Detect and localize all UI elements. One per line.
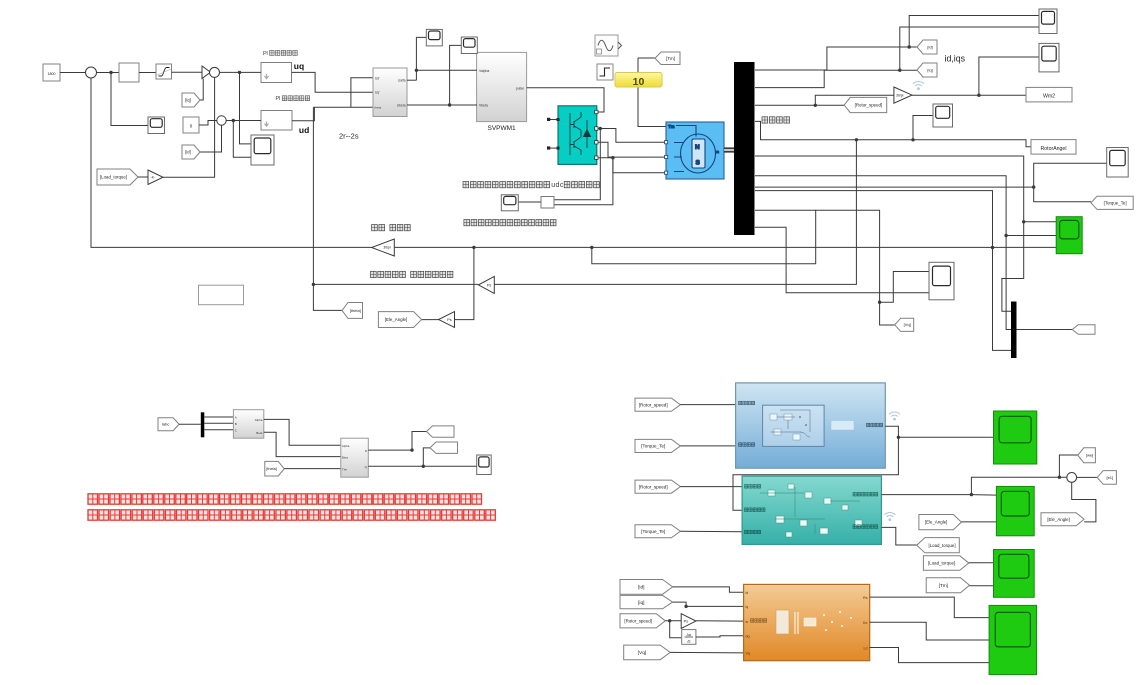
annotation red line2 <box>88 510 98 520</box>
wire Ubeta to SVPWM <box>407 104 477 106</box>
from tag Load_torque <box>97 169 138 185</box>
scope Wm <box>1039 43 1059 72</box>
constant 0 <box>183 117 199 133</box>
wire to we tag <box>1059 455 1077 477</box>
junction <box>472 246 475 249</box>
wire voltage measure C <box>554 158 613 205</box>
svg-text:2r--2s: 2r--2s <box>339 132 359 141</box>
annotation frequency <box>464 220 470 226</box>
wire load to gain <box>138 176 148 178</box>
goto tag Vq <box>895 318 914 331</box>
subsystem abc to alphabeta <box>233 410 263 439</box>
wire speed to Ps gain 2 <box>455 247 474 319</box>
wire id to orange <box>673 587 744 592</box>
from tag theta 2 <box>265 461 284 476</box>
wire Q out to scope <box>368 465 476 467</box>
wire Tm to motor <box>638 58 667 127</box>
svg-text:Ps: Ps <box>447 318 452 322</box>
svg-text:[Vq]: [Vq] <box>638 650 647 656</box>
svg-text:[Rotor_speed]: [Rotor_speed] <box>639 402 668 407</box>
svg-text:id,iqs: id,iqs <box>945 54 966 64</box>
wire blue out to teal in2 <box>733 426 898 510</box>
wire speed observe out <box>881 494 971 496</box>
wire Ubeta to scope <box>450 45 462 105</box>
svg-text:-K-: -K- <box>150 176 156 180</box>
wire Te to goto tag <box>1034 187 1091 202</box>
derivative block <box>682 630 696 645</box>
svg-text:Ud': Ud' <box>375 77 380 81</box>
junction <box>611 156 614 159</box>
svg-text:[Tm]: [Tm] <box>666 56 675 61</box>
from tag Rotor_speed 1 <box>635 398 680 411</box>
from tag Rotor_speed 2 <box>635 480 680 493</box>
PI current regulator d <box>261 111 292 131</box>
wire sum2 to PIq <box>220 71 262 73</box>
wire to Vq tag <box>880 302 895 325</box>
wire D to goto 1 <box>412 432 427 451</box>
label multiply pole pairs <box>371 271 377 277</box>
scope angle <box>933 104 953 127</box>
svg-text:[Torque_Te]: [Torque_Te] <box>1104 200 1127 205</box>
svg-text:c: c <box>560 182 564 189</box>
voltage measurement block <box>541 197 554 209</box>
wire torque to blue <box>680 445 735 447</box>
junction <box>668 619 671 622</box>
wire Te to scope D <box>1034 163 1107 187</box>
svg-text:Ubeta: Ubeta <box>397 103 406 107</box>
teal ports <box>745 485 748 489</box>
signal generator block <box>595 35 618 56</box>
empty annotation box <box>199 285 244 305</box>
junction <box>448 103 451 106</box>
junction <box>897 436 900 439</box>
svg-text:[e1]: [e1] <box>1106 475 1113 480</box>
svg-text:Alpha: Alpha <box>255 418 263 422</box>
scope Ualfa <box>426 29 442 46</box>
junction <box>814 104 817 107</box>
wire mech angle to RotorAngel <box>755 121 1031 146</box>
wire Tm to green scope3 <box>970 585 994 587</box>
goto tag id <box>917 40 937 54</box>
junction <box>991 246 994 249</box>
wire bus Te <box>755 186 1034 188</box>
svg-text:m: m <box>716 150 719 154</box>
wire 0 to sum <box>199 121 217 126</box>
label mechanical angle <box>762 117 768 123</box>
wire PI to saturation <box>139 72 156 74</box>
svg-text:B: B <box>235 422 237 426</box>
svg-text:[Torque_Te]: [Torque_Te] <box>641 444 665 449</box>
wire speed to green scope in3 <box>993 246 1057 248</box>
goto tag Torque_Te <box>1091 196 1133 209</box>
svg-text:[iq]: [iq] <box>638 600 644 606</box>
svg-text:The: The <box>342 468 347 472</box>
scope dq <box>477 455 492 475</box>
svg-text:[Rotor_speed]: [Rotor_speed] <box>855 103 883 108</box>
wire load observe out <box>881 527 916 545</box>
wire Rs to scope <box>870 597 989 618</box>
junction <box>410 448 413 451</box>
from tag Iabc <box>158 418 179 431</box>
goto tag theta <box>342 303 363 319</box>
svg-text:Ld: Ld <box>864 646 868 650</box>
wire theta to dq block <box>284 468 341 470</box>
svg-text:[Torque_Te]: [Torque_Te] <box>641 529 665 534</box>
wire Ualfa out <box>407 79 416 81</box>
svg-text:[Tm]: [Tm] <box>939 583 948 588</box>
junction <box>415 69 418 72</box>
wire sum to e1 <box>1077 476 1098 478</box>
wire vmeas to scope <box>518 201 541 203</box>
wire load feedforward to sum <box>163 78 215 178</box>
from tag id <box>182 145 200 159</box>
wire D out <box>368 449 412 451</box>
wire to sum E <box>971 477 1066 494</box>
wire 1800 to sum <box>60 72 86 74</box>
observer subsystem inertia (blue) <box>736 383 886 468</box>
wire pulse to inverter gate <box>527 88 604 112</box>
svg-text:Ke: Ke <box>863 621 867 625</box>
annotation red line1 <box>88 494 98 504</box>
wire electrical angle to theta <box>313 283 478 285</box>
junction <box>911 138 914 141</box>
svg-text:[Rotor_speed]: [Rotor_speed] <box>639 484 668 489</box>
wire inverter dc- stub <box>549 147 558 149</box>
parameter identification subsystem (orange) <box>744 584 870 660</box>
wire alpha <box>264 419 341 445</box>
subsystem alphabeta to dq <box>341 438 369 477</box>
gain 30/pi rpm <box>372 239 395 256</box>
junction <box>898 69 901 72</box>
wifi icon teal <box>884 512 895 517</box>
scope Ubeta <box>461 37 477 54</box>
from tag Vq 2 <box>624 645 671 660</box>
wire phase A <box>598 129 666 143</box>
wire id to scope A <box>909 16 1039 48</box>
gain Ps pole pairs <box>478 276 494 293</box>
svg-text:[iq]: [iq] <box>185 98 191 103</box>
wire ele angle to green scope2 <box>961 521 996 523</box>
scope line voltage <box>501 195 518 211</box>
goto tag q current <box>430 442 458 453</box>
wire ud up <box>292 107 314 120</box>
wire to gain 30/pi <box>815 95 894 105</box>
wire Ualfa to SVPWM <box>416 69 477 71</box>
to workspace RotorAngel <box>1031 140 1076 155</box>
from tag Load_torque 2 <box>923 556 968 571</box>
green scope speed observe <box>996 486 1034 535</box>
svg-text:Tm: Tm <box>668 124 675 129</box>
junction <box>422 465 425 468</box>
svg-text:Valpha: Valpha <box>479 69 489 73</box>
sum S1 speed error <box>86 67 97 78</box>
wire rotor speed to teal <box>680 486 742 488</box>
svg-text:RotorAngel: RotorAngel <box>1041 146 1067 152</box>
goto tag Ele_Angle <box>378 312 421 328</box>
wire demux a <box>204 416 233 418</box>
svg-text:Vbeta: Vbeta <box>479 104 488 108</box>
scope id iq <box>1039 9 1057 34</box>
to workspace Wm2 <box>1026 87 1072 102</box>
from tag Tm 2 <box>926 578 969 593</box>
svg-text:Vq: Vq <box>746 652 750 656</box>
wire inverter dc+ stub <box>549 119 558 121</box>
wire load torque to green scope3 <box>969 562 994 564</box>
from tag Torque_Te 1 <box>635 439 680 452</box>
wire Q to goto 2 <box>423 448 430 466</box>
svg-text:30/pi: 30/pi <box>383 246 391 250</box>
junction <box>1058 476 1061 479</box>
wire phase B <box>598 142 666 157</box>
wire speed to Ps gain <box>665 620 681 622</box>
goto tag Tm <box>655 52 680 65</box>
svg-text:[Load_torque]: [Load_torque] <box>100 175 127 180</box>
junction <box>970 493 973 496</box>
svg-text:[theta]: [theta] <box>266 467 277 471</box>
svg-text:[Vq]: [Vq] <box>904 322 911 327</box>
wire Ld to scope <box>870 648 989 663</box>
wire mech angle down to Ps gain <box>494 140 856 285</box>
measurement bus connection <box>724 148 734 151</box>
wire down to mux in2 <box>1006 236 1011 330</box>
junction <box>238 71 241 74</box>
svg-text:Ps: Ps <box>684 619 689 623</box>
wire Tm tag <box>638 57 655 59</box>
wire torque to teal <box>680 530 742 533</box>
svg-text:1800: 1800 <box>48 72 56 76</box>
wire speed feedback to sum1 <box>91 78 372 247</box>
junction <box>590 246 593 249</box>
goto tag Rotor_speed <box>844 97 887 112</box>
wire iq to orange <box>673 602 744 606</box>
junction <box>1032 185 1035 188</box>
stub dot plus <box>547 118 550 121</box>
svg-text:ud: ud <box>299 125 309 135</box>
gain -K- load feedforward <box>148 170 163 185</box>
junction <box>878 301 881 304</box>
from tag Torque_Te 2 <box>635 525 680 538</box>
wire uq to Uq port <box>292 72 375 92</box>
wire bus to green scope in1 <box>755 156 1056 222</box>
green scope motor signals <box>1056 217 1082 254</box>
svg-text:[we]: [we] <box>1086 453 1093 458</box>
wire mux out to goto <box>1017 329 1073 331</box>
svg-text:30/pi: 30/pi <box>896 93 904 97</box>
svg-text:Uq': Uq' <box>375 91 380 95</box>
demux bar <box>201 412 205 437</box>
wire theta vertical <box>313 107 342 310</box>
wire down to mux in1 <box>1002 222 1024 311</box>
saturation block <box>156 64 172 79</box>
svg-text:A: A <box>235 416 237 420</box>
svg-text:[id]: [id] <box>927 44 932 49</box>
speed PI controller <box>119 63 139 82</box>
wire speed feedback right part <box>394 246 992 248</box>
wire demux c <box>204 429 233 431</box>
svg-text:[id]: [id] <box>185 150 191 155</box>
svg-text:[Ele_Angle]: [Ele_Angle] <box>385 317 407 322</box>
label speed rpm <box>372 225 378 231</box>
svg-text:SVPWM1: SVPWM1 <box>488 125 517 132</box>
from tag iq <box>182 93 200 107</box>
goto tag e1 <box>1097 471 1116 485</box>
junction <box>1022 220 1025 223</box>
wire uq branch to scope2 <box>240 72 252 143</box>
wire gain to Wm2 <box>912 94 1026 96</box>
wifi icon gain <box>913 81 924 86</box>
svg-text:Δt: Δt <box>687 639 690 643</box>
goto tag we <box>1078 448 1096 463</box>
wire bus to id tag <box>755 47 917 70</box>
wire bus vq down <box>755 210 880 302</box>
wire sum to speed PI <box>97 72 120 74</box>
subsystem 2r-2s transform <box>373 68 407 117</box>
wire Ps to orange <box>696 620 744 622</box>
constant 1800 <box>43 64 60 81</box>
wire Ps2 to Ele_Angle <box>422 319 439 321</box>
bus selector bar <box>734 62 755 235</box>
gain triangle <box>202 66 211 79</box>
svg-text:dq: dq <box>746 635 750 639</box>
svg-text:[Ele_Angle]: [Ele_Angle] <box>1047 517 1069 522</box>
gain Ps 3 <box>681 614 696 629</box>
svg-text:iq: iq <box>746 605 749 609</box>
green scope parameters <box>989 605 1036 674</box>
svg-text:Ualfa: Ualfa <box>398 79 406 83</box>
junction <box>908 45 911 48</box>
wire to scope B <box>979 57 1039 95</box>
green scope inertia <box>994 411 1037 464</box>
svg-text:Iabc: Iabc <box>162 422 170 427</box>
svg-text:[Load_torque]: [Load_torque] <box>928 543 955 548</box>
svg-text:Ps: Ps <box>487 283 492 287</box>
scope speed <box>148 117 165 134</box>
scope uq ud <box>251 135 274 165</box>
wire down to mux in3 <box>993 248 1012 351</box>
svg-text:[Rotor_speed]: [Rotor_speed] <box>624 618 652 623</box>
wire Vq to orange <box>670 651 743 654</box>
from tag Rotor_speed 3 <box>620 614 665 628</box>
green scope load torque <box>994 550 1035 598</box>
sum S3 id error <box>217 116 226 125</box>
wire speed to derivative <box>670 621 682 638</box>
wire saturation to gain <box>172 71 203 73</box>
wire rotor speed to blue <box>680 404 735 406</box>
wire phase C <box>598 158 666 173</box>
svg-text:I: I <box>266 51 268 57</box>
junction <box>232 119 235 122</box>
PMSM motor block <box>666 122 724 179</box>
svg-text:[id]: [id] <box>638 585 644 591</box>
from tag id 2 <box>620 580 673 595</box>
wire derivative to orange <box>696 636 744 637</box>
wire bus to iq tag <box>755 70 917 87</box>
wire to speed scope <box>111 73 148 126</box>
PI current regulator q <box>261 63 292 83</box>
svg-text:[iq]: [iq] <box>927 67 932 72</box>
from tag iq 2 <box>620 595 673 608</box>
svg-text:I: I <box>279 96 281 102</box>
wire to green scope 2 in1 <box>971 494 996 497</box>
gain 30/pi <box>894 87 912 103</box>
junction <box>109 71 112 74</box>
svg-text:Rs: Rs <box>863 596 868 600</box>
wifi icon blue <box>889 412 900 417</box>
step block <box>597 64 613 80</box>
scope voltages <box>929 262 954 300</box>
wire iq to scope A <box>900 27 1039 70</box>
svg-text:[Ele_Angle]: [Ele_Angle] <box>925 520 947 525</box>
gain Ps 2 <box>439 312 455 328</box>
wire iq feedback <box>200 79 203 100</box>
junction <box>977 94 980 97</box>
wire bus speed <box>755 191 993 248</box>
wire blue out to green scope <box>898 436 993 438</box>
wire demux b <box>204 422 233 424</box>
constant 10 highlighted <box>0 0 1 1</box>
motor port marks <box>665 141 668 175</box>
goto tag Iabc <box>1072 325 1095 335</box>
svg-text:theta: theta <box>375 106 382 110</box>
mux bar <box>1011 302 1017 359</box>
stub dot minus <box>547 146 550 149</box>
from tag Ele_Angle 2 <box>1041 513 1084 526</box>
subsystem SVPWM1 <box>477 52 527 121</box>
svg-text:Beta: Beta <box>342 456 348 460</box>
wire to scope C <box>913 116 933 140</box>
wire beta <box>264 432 341 456</box>
svg-text:[theta]: [theta] <box>350 308 361 313</box>
junction <box>684 605 687 608</box>
wire Ualfa to scope <box>416 37 426 80</box>
svg-text:Wm2: Wm2 <box>1043 94 1055 100</box>
wire speed staircase branch <box>592 210 816 264</box>
wire theta to port <box>313 106 374 108</box>
goto tag d current <box>427 426 455 437</box>
junction <box>599 127 602 130</box>
wire voltage measure A <box>554 129 600 200</box>
junction <box>312 283 315 286</box>
svg-text:N: N <box>695 144 700 151</box>
svg-text:Beta: Beta <box>256 431 263 435</box>
svg-text:uq: uq <box>294 61 304 71</box>
blue ports <box>739 401 742 405</box>
svg-text:id: id <box>746 591 749 595</box>
wire to scope E in1 <box>880 272 929 303</box>
inverter port marks <box>557 110 599 159</box>
annotation inverter voltage <box>463 182 469 188</box>
from tag Ele_Angle 3 <box>919 515 962 530</box>
sum S2 iq error <box>210 67 220 77</box>
observer subsystem speed/load (teal) <box>742 476 881 544</box>
wire bus to rotor speed tag <box>755 104 844 106</box>
sum observer error <box>1067 473 1077 483</box>
scope Te <box>1107 148 1129 178</box>
wire ud staircase to Ud port <box>351 78 374 108</box>
svg-text:10: 10 <box>633 76 645 88</box>
wire Iabc to demux <box>179 423 201 425</box>
wire Ke to scope <box>870 622 989 640</box>
wire bus to green scope in2 <box>755 176 1056 236</box>
wire sum3 to PId <box>226 120 261 122</box>
junction <box>1004 234 1007 237</box>
wire ud branch to scope2 <box>233 121 251 158</box>
wire bus to scope E in2 <box>755 227 929 293</box>
junction <box>855 138 858 141</box>
goto tag iq <box>917 63 937 77</box>
svg-text:w: w <box>746 620 749 624</box>
svg-text:pulse: pulse <box>516 87 524 91</box>
